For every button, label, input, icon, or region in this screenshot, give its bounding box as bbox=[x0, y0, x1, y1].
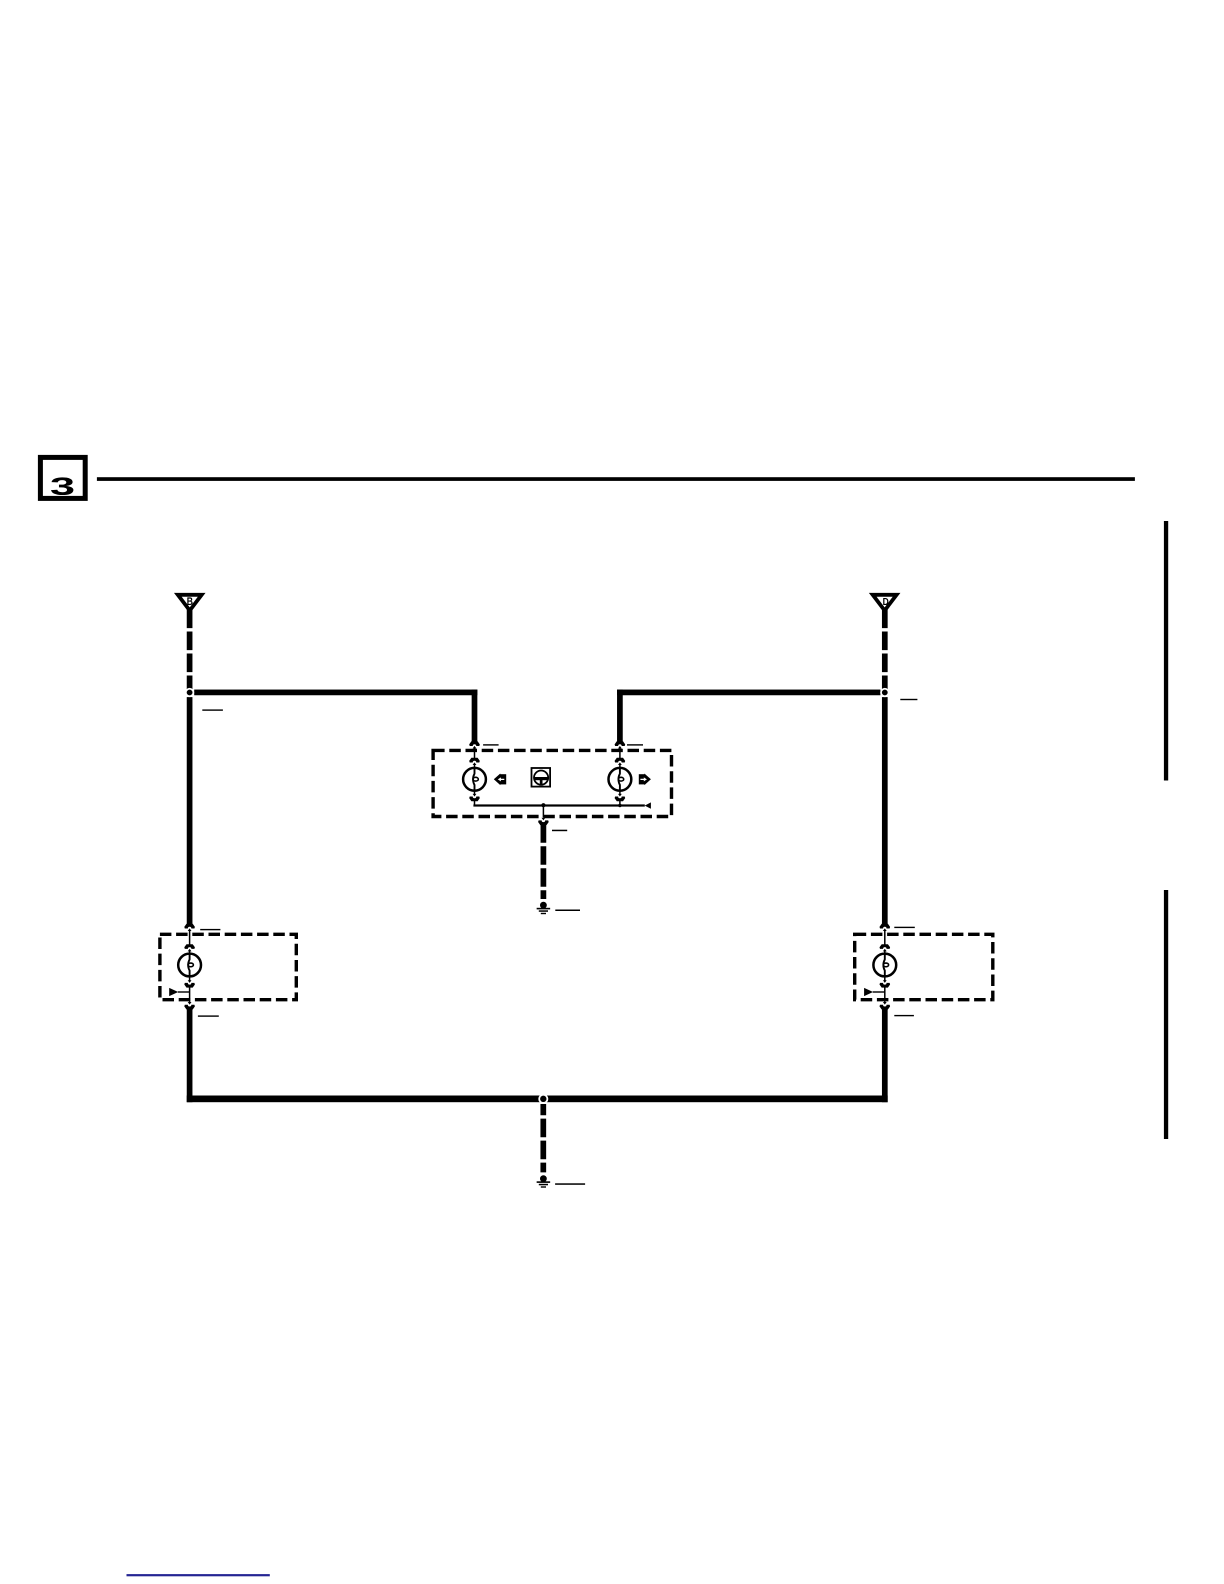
node left corner junction bbox=[185, 688, 194, 697]
label line left corner bbox=[202, 709, 223, 710]
wire dashed from triangle B bbox=[187, 610, 193, 690]
wire dashed to ground (center) bbox=[541, 824, 547, 899]
sidebar bar 2 bbox=[1164, 890, 1168, 1139]
wire right bottom vertical bbox=[882, 1009, 888, 1102]
right dashed component box bbox=[855, 934, 993, 999]
sidebar bar 1 bbox=[1164, 521, 1168, 781]
steering wheel icon bbox=[532, 768, 551, 787]
wire dashed from triangle D bbox=[882, 610, 888, 690]
connector below bulb center-left bbox=[469, 791, 480, 807]
connector entry center-left bbox=[469, 741, 480, 768]
label line right box bottom bbox=[894, 1015, 914, 1016]
connector below bulb right box bbox=[880, 976, 891, 1002]
internal bus wire in center box bbox=[473, 802, 651, 808]
connector exit center box to ground bbox=[538, 806, 549, 825]
ground symbol center bbox=[537, 902, 551, 914]
bulb center-right bbox=[609, 768, 632, 791]
arrow icon right (pointing right) bbox=[639, 774, 651, 786]
footer link line bbox=[127, 1574, 270, 1576]
ground symbol bottom bbox=[537, 1175, 551, 1187]
page number box 3 bbox=[40, 457, 85, 498]
arrow tap right box bbox=[864, 988, 885, 996]
wire dashed to ground (bottom) bbox=[540, 1104, 546, 1172]
label line right corner bbox=[900, 699, 917, 700]
connector below bulb center-right bbox=[615, 791, 626, 807]
connector entry right box bbox=[880, 924, 891, 954]
connector triangle B bbox=[178, 595, 202, 611]
label line center box exit bbox=[552, 830, 567, 832]
wire right vertical trunk bbox=[882, 697, 888, 924]
label line left box bottom bbox=[198, 1015, 219, 1016]
connector entry left box bbox=[184, 924, 195, 954]
label line left center wire bbox=[483, 744, 499, 745]
arrow icon left (pointing left) bbox=[494, 774, 506, 786]
center dashed component box bbox=[433, 750, 671, 816]
connector exit right box bbox=[880, 1002, 891, 1010]
wire left vertical trunk bbox=[187, 697, 193, 924]
node on bus (ground tap) bbox=[541, 803, 545, 807]
arrow tap left box bbox=[169, 988, 189, 996]
node bottom center junction bbox=[538, 1094, 548, 1104]
label line right center wire bbox=[627, 744, 643, 745]
wire top-right horizontal to center box bbox=[617, 690, 880, 742]
wire top-left horizontal to center box bbox=[194, 690, 477, 742]
bulb right box bbox=[873, 954, 896, 977]
node right corner junction bbox=[880, 688, 889, 697]
label line right box top bbox=[894, 927, 915, 928]
connector exit left box bbox=[184, 1002, 195, 1010]
wire left bottom vertical bbox=[187, 1009, 193, 1102]
bulb left box bbox=[178, 954, 201, 977]
connector entry center-right bbox=[615, 741, 626, 768]
label line ground bottom bbox=[555, 1183, 585, 1185]
label line left box top bbox=[200, 929, 220, 930]
horizontal header rule bbox=[97, 477, 1135, 481]
left dashed component box bbox=[160, 934, 296, 999]
node on bus (right bulb) bbox=[618, 804, 621, 807]
label line ground center bbox=[555, 910, 580, 912]
wire bottom horizontal bbox=[187, 1096, 888, 1103]
bulb center-left bbox=[463, 768, 486, 791]
connector triangle D bbox=[873, 595, 897, 611]
connector below bulb left box bbox=[184, 976, 195, 1002]
